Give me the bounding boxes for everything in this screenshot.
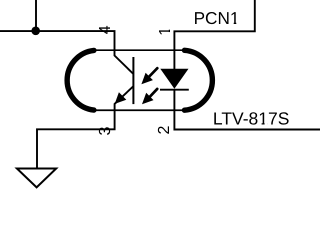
svg-text:4: 4 xyxy=(97,25,114,34)
svg-text:LTV-817S: LTV-817S xyxy=(213,109,290,129)
svg-text:PCN1: PCN1 xyxy=(194,8,240,28)
svg-text:2: 2 xyxy=(156,126,173,135)
svg-text:3: 3 xyxy=(97,127,114,136)
svg-text:1: 1 xyxy=(157,27,174,36)
